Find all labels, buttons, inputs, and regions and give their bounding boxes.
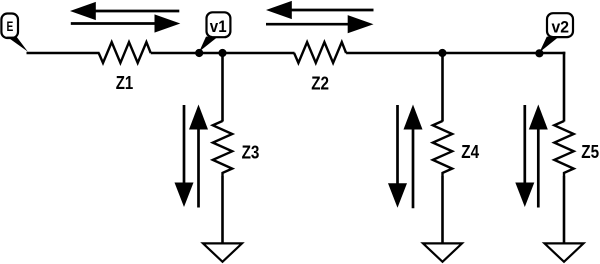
wire Z4 to ground — [441, 176, 444, 244]
svg-text:E: E — [7, 18, 14, 34]
resistor Z1 — [99, 42, 151, 63]
wire Z5 to ground — [563, 176, 566, 244]
svg-text:v2: v2 — [552, 19, 570, 37]
ground under Z5 — [545, 243, 584, 261]
node v1 callout box — [199, 12, 230, 51]
resistor Z5 — [554, 121, 573, 176]
svg-text:Z1: Z1 — [116, 73, 134, 93]
ground under Z4 — [423, 243, 462, 261]
junction dot at Z4 branch — [438, 49, 446, 57]
svg-text:Z2: Z2 — [311, 74, 329, 94]
current arrow pair over Z2: left arrow — [266, 1, 374, 19]
current arrows beside Z3: up arrow — [189, 105, 208, 208]
resistor Z2 — [294, 42, 346, 63]
junction dot at v2 — [535, 49, 543, 57]
current arrow pair over Z1: left arrow — [70, 2, 179, 20]
svg-text:v1: v1 — [210, 18, 227, 36]
node v2 callout box — [539, 13, 573, 52]
current arrows beside Z5: down arrow — [515, 105, 534, 207]
junction dot at v1 — [195, 49, 203, 57]
wire Z1 to Z2 — [151, 52, 295, 55]
current arrows beside Z3: down arrow — [175, 105, 194, 207]
wire Z3 to ground — [221, 176, 224, 244]
ground under Z3 — [203, 243, 242, 261]
resistor Z4 — [433, 121, 452, 176]
wire down to Z4 — [441, 53, 444, 122]
svg-text:Z4: Z4 — [461, 142, 479, 162]
current arrow pair over Z1: right arrow — [71, 14, 181, 32]
wire Z2 to corner — [346, 52, 565, 55]
junction dot at Z3 branch — [218, 49, 226, 57]
current arrow pair over Z2: right arrow — [266, 15, 374, 33]
svg-text:Z3: Z3 — [242, 143, 260, 163]
current arrows beside Z4: up arrow — [404, 105, 423, 209]
current arrows beside Z5: up arrow — [529, 105, 548, 208]
svg-text:Z5: Z5 — [581, 142, 599, 162]
wire v1 down to Z3 — [221, 53, 224, 122]
wire corner down to Z5 — [563, 52, 566, 122]
current arrows beside Z4: down arrow — [388, 105, 407, 208]
node E callout box — [1, 14, 27, 52]
wire E to Z1 — [27, 52, 100, 55]
resistor Z3 — [213, 121, 232, 176]
